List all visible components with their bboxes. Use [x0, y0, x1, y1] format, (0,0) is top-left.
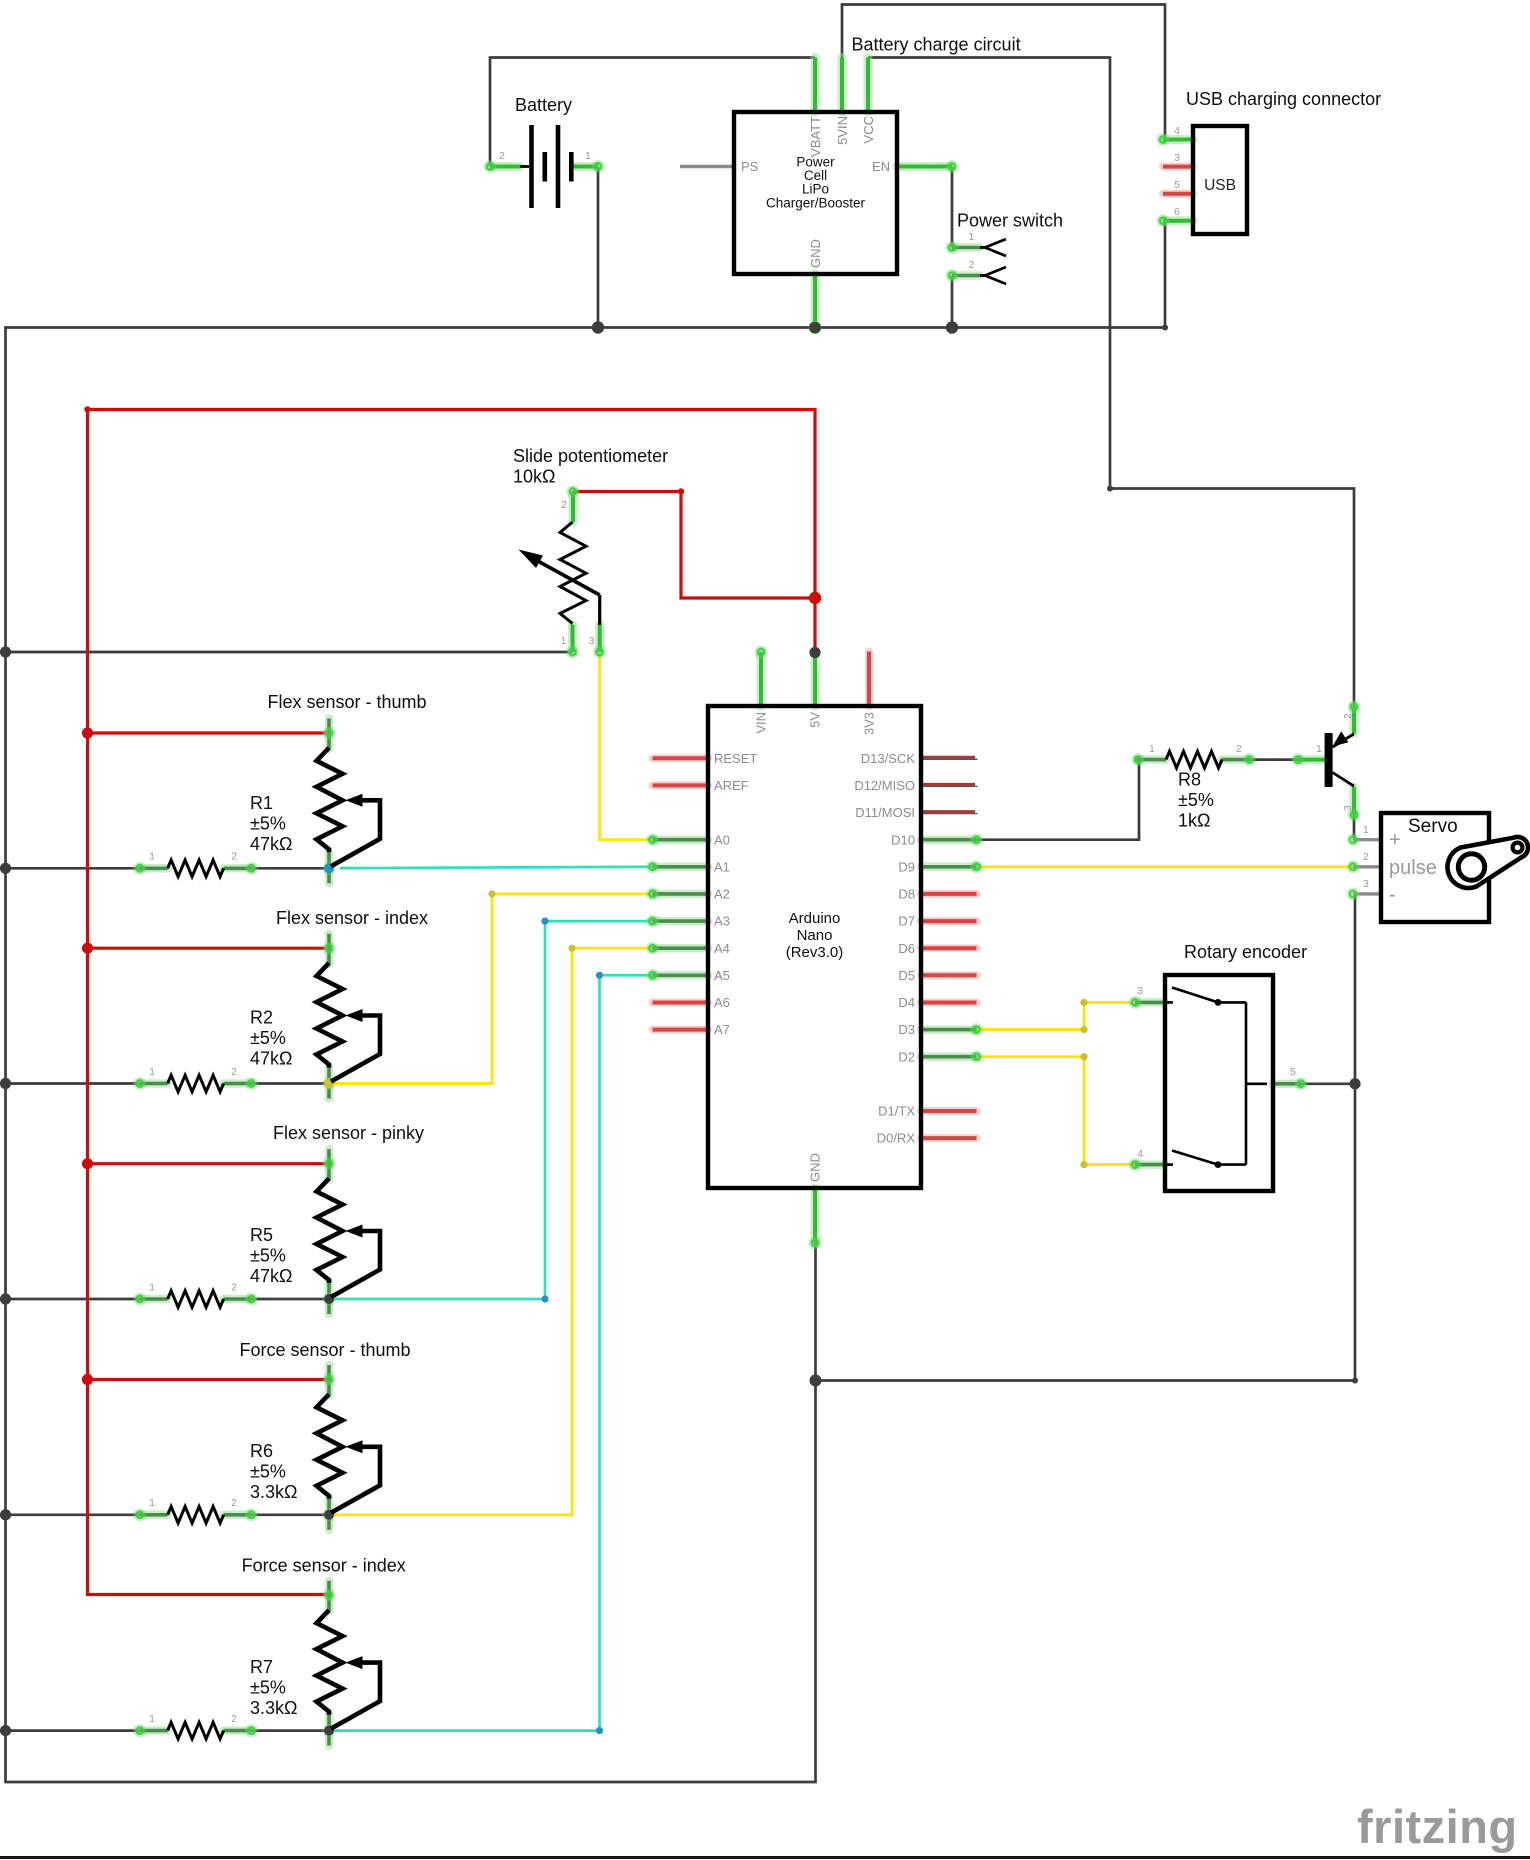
junction: power cell GND rail dot	[809, 322, 820, 333]
wire: D9 to servo pulse (yellow)	[977, 865, 1354, 868]
svg-text:3: 3	[1363, 878, 1369, 890]
svg-text:2: 2	[561, 499, 567, 511]
junction: red bus corner	[84, 406, 90, 412]
power cell pin leads VBATT 5VIN VCC GND EN PS	[811, 58, 820, 113]
rotary encoder SW1 box	[1165, 975, 1273, 1191]
wire: A4 to force thumb node (yellow)	[329, 948, 653, 1515]
svg-text:D1/TX: D1/TX	[878, 1104, 915, 1119]
red stubs: D8-D4, D1/TX, D0/RX	[921, 890, 977, 898]
svg-text:±5%: ±5%	[1178, 790, 1214, 810]
junction: yellow bend dots	[488, 890, 495, 897]
svg-text:-: -	[1389, 884, 1396, 906]
svg-text:1kΩ: 1kΩ	[1178, 810, 1210, 830]
battery pin leads	[490, 162, 520, 171]
svg-text:1: 1	[149, 1497, 155, 1509]
svg-text:1: 1	[1316, 743, 1322, 755]
svg-text:1: 1	[1149, 743, 1155, 755]
svg-text:D13/SCK: D13/SCK	[861, 751, 916, 766]
svg-text:47kΩ: 47kΩ	[250, 1049, 292, 1069]
horizontal resistors R1,R2,R5,R6,R7 symbols	[168, 860, 224, 877]
wire: R7 pin 2 to flex/force sensor node	[251, 1729, 329, 1732]
svg-text:Flex sensor - thumb: Flex sensor - thumb	[267, 692, 426, 712]
wire: servo - pin down to GND junction	[816, 894, 1356, 1381]
svg-text:1: 1	[585, 150, 591, 162]
svg-text:±5%: ±5%	[250, 814, 286, 834]
wire: D2 to rotary pin 4 (yellow)	[977, 1057, 1136, 1165]
svg-text:D12/MISO: D12/MISO	[854, 778, 915, 793]
svg-text:47kΩ: 47kΩ	[250, 1266, 292, 1286]
svg-text:GND: GND	[808, 239, 823, 268]
battery BAT1 symbol	[529, 125, 534, 208]
svg-text:1: 1	[149, 1066, 155, 1078]
svg-text:Force sensor - thumb: Force sensor - thumb	[239, 1340, 410, 1360]
maroon wired pins D13/D12/D11	[921, 758, 978, 760]
svg-text:fritzing: fritzing	[1357, 1800, 1518, 1853]
svg-text:VIN: VIN	[754, 712, 769, 734]
svg-text:R8: R8	[1178, 769, 1201, 789]
svg-text:pulse: pulse	[1389, 857, 1437, 879]
svg-text:D3: D3	[898, 1022, 915, 1037]
flex/force sensor pin leads	[325, 719, 334, 750]
svg-text:2: 2	[231, 1281, 237, 1293]
junction: GND bottom junction	[810, 1375, 822, 1387]
svg-text:3: 3	[589, 635, 595, 647]
green connection glow dots	[646, 833, 659, 846]
svg-text:AREF: AREF	[714, 778, 749, 793]
red stub: 3V3	[865, 652, 873, 707]
svg-text:R2: R2	[250, 1008, 273, 1028]
svg-text:Rotary encoder: Rotary encoder	[1184, 942, 1307, 962]
wire: D10 to R8 pin 1	[977, 760, 1140, 840]
wire: D3 to rotary pin 3 (yellow)	[977, 1002, 1136, 1029]
svg-text:R5: R5	[250, 1225, 273, 1245]
slide pot pin leads	[569, 492, 578, 523]
svg-text:R6: R6	[250, 1441, 273, 1461]
svg-text:2: 2	[1236, 743, 1242, 755]
svg-text:USB charging connector: USB charging connector	[1186, 89, 1381, 109]
svg-text:GND: GND	[808, 1153, 823, 1182]
svg-text:D9: D9	[898, 859, 915, 874]
bottom border line	[0, 1856, 1530, 1859]
svg-text:Force sensor - index: Force sensor - index	[242, 1556, 406, 1576]
svg-text:±5%: ±5%	[250, 1678, 286, 1698]
flex/force sensor variable-resistor symbols	[317, 748, 343, 853]
svg-text:3: 3	[1342, 805, 1354, 811]
wire: R8 pin 2 to transistor base	[1249, 758, 1298, 761]
wire: slide pot pin 2 to 5V junction	[573, 492, 815, 599]
svg-text:Arduino: Arduino	[789, 910, 841, 927]
svg-text:A2: A2	[714, 887, 730, 902]
svg-text:5: 5	[1174, 179, 1180, 191]
svg-text:D2: D2	[898, 1049, 915, 1064]
svg-text:A0: A0	[714, 832, 730, 847]
wire: red top run to 5V junction	[88, 410, 816, 599]
svg-text:2: 2	[1363, 851, 1369, 863]
R8 and transistor leads	[1138, 755, 1166, 764]
wire: R6 pin 2 to flex/force sensor node	[251, 1513, 329, 1516]
wire: A5 to force index node (aqua)	[329, 975, 653, 1730]
svg-text:1: 1	[149, 1713, 155, 1725]
svg-text:1: 1	[1363, 824, 1369, 836]
wire: R2 pin 2 to flex/force sensor node	[251, 1082, 329, 1085]
svg-text:Power switch: Power switch	[957, 211, 1063, 231]
svg-text:D10: D10	[891, 832, 915, 847]
svg-text:Charger/Booster: Charger/Booster	[766, 195, 866, 210]
Arduino Nano U1 box	[708, 706, 921, 1188]
wire: A3 to flex pinky node (aqua)	[329, 921, 653, 1299]
rotary encoder pin leads	[1135, 998, 1165, 1007]
svg-text:A4: A4	[714, 941, 730, 956]
wire: slide pot pin 3 to A0 (yellow)	[600, 652, 653, 840]
svg-text:3: 3	[1137, 985, 1143, 997]
horizontal resistor leads R1..R7	[140, 864, 168, 873]
svg-text:2: 2	[499, 150, 505, 162]
svg-text:4: 4	[1174, 125, 1180, 137]
wire: slide pot pin 1 to left GND bus	[6, 651, 573, 654]
wire: transistor pin 3 to servo +	[1353, 815, 1356, 840]
USB connector J1 box	[1193, 126, 1247, 234]
Arduino VIN/5V/GND power leads	[757, 652, 766, 706]
svg-text:USB: USB	[1204, 177, 1236, 194]
servo gray pin leads	[1353, 838, 1381, 841]
svg-text:A5: A5	[714, 968, 730, 983]
svg-text:EN: EN	[872, 159, 890, 174]
svg-text:D11/MOSI: D11/MOSI	[855, 805, 915, 820]
junction: pot corner dot	[678, 488, 684, 494]
svg-text:5V: 5V	[808, 712, 823, 728]
svg-text:Flex sensor - pinky: Flex sensor - pinky	[273, 1123, 424, 1143]
wire: VBATT to battery pin 2	[490, 58, 815, 167]
junction: left bus taps	[0, 646, 11, 657]
svg-text:Flex sensor - index: Flex sensor - index	[276, 908, 428, 928]
svg-text:Servo: Servo	[1408, 816, 1458, 837]
wire: red bus branch to flex pinky top pin	[88, 1162, 330, 1165]
svg-text:R7: R7	[250, 1657, 273, 1677]
power cell U2 box (Power Cell LiPo Charger/Booster)	[734, 112, 897, 274]
junction: red bus taps	[82, 727, 93, 738]
svg-text:Nano: Nano	[797, 927, 833, 944]
servo horn icon	[1447, 837, 1528, 888]
svg-text:D4: D4	[898, 995, 915, 1010]
svg-text:Slide potentiometer: Slide potentiometer	[513, 446, 668, 466]
power switch S1 symbol	[980, 246, 985, 249]
svg-text:±5%: ±5%	[250, 1245, 286, 1265]
svg-text:D7: D7	[898, 914, 915, 929]
svg-text:3V3: 3V3	[862, 712, 877, 735]
wire: left GND bus to R7 pin 1	[6, 1729, 140, 1732]
wire: left GND bus to R2 pin 1	[6, 1082, 140, 1085]
svg-text:3: 3	[1174, 152, 1180, 164]
svg-text:3.3kΩ: 3.3kΩ	[250, 1698, 297, 1718]
svg-text:Battery: Battery	[515, 95, 572, 115]
svg-text:R1: R1	[250, 793, 273, 813]
svg-text:A3: A3	[714, 914, 730, 929]
node D10,D9,D3,D2 leads	[921, 835, 977, 844]
svg-text:±5%: ±5%	[250, 1462, 286, 1482]
junction: GND rail dots	[592, 321, 604, 333]
svg-text:+: +	[1389, 829, 1401, 851]
wire: R5 pin 2 to flex/force sensor node	[251, 1298, 329, 1301]
wire: battery pin 1 to GND rail	[597, 167, 600, 328]
red stubs: RESET AREF A6 A7	[653, 754, 709, 762]
junction: corner dots	[1107, 486, 1113, 492]
junction: rotary pin5 tap	[1349, 1078, 1360, 1089]
svg-text:1: 1	[149, 851, 155, 863]
svg-text:3.3kΩ: 3.3kΩ	[250, 1482, 297, 1502]
svg-text:1: 1	[969, 231, 975, 243]
junction: 5V red junction	[809, 592, 821, 604]
svg-text:Battery charge circuit: Battery charge circuit	[852, 35, 1021, 55]
servo M1 box	[1381, 813, 1489, 922]
junction: aqua bend dots	[541, 918, 548, 925]
svg-text:2: 2	[231, 1066, 237, 1078]
node: flex thumb tap (blue)	[324, 863, 334, 873]
svg-text:2: 2	[969, 259, 975, 271]
svg-text:47kΩ: 47kΩ	[250, 834, 292, 854]
svg-text:2: 2	[231, 1497, 237, 1509]
svg-text:1: 1	[149, 1281, 155, 1293]
svg-text:D6: D6	[898, 941, 915, 956]
node: pinky/force taps (dark)	[324, 1294, 334, 1304]
wire: VCC to transistor emitter (via top-right corridor)	[868, 58, 1354, 707]
svg-text:A6: A6	[714, 995, 730, 1010]
svg-text:A7: A7	[714, 1022, 730, 1037]
wire: 5V junction down to Arduino 5V pin	[813, 598, 816, 650]
wire: red bus branch to flex index top pin	[88, 947, 330, 950]
svg-text:±5%: ±5%	[250, 1028, 286, 1048]
svg-text:VCC: VCC	[861, 116, 876, 143]
svg-text:RESET: RESET	[714, 751, 757, 766]
svg-text:D0/RX: D0/RX	[877, 1131, 916, 1146]
wire: rotary encoder pin 5 to GND riser	[1301, 1082, 1355, 1085]
USB pin leads 4,3,5,6	[1163, 135, 1193, 144]
wire: red bus branch to flex thumb top pin	[88, 731, 330, 734]
node A0-A5 leads (Arduino analog pins)	[653, 835, 709, 844]
wire: EN to power switch pin 1	[951, 167, 954, 248]
wire: A2 to flex index node (yellow)	[329, 894, 653, 1084]
wire: left GND bus to R1 pin 1	[6, 867, 140, 870]
svg-text:2: 2	[231, 851, 237, 863]
svg-text:5: 5	[1290, 1066, 1296, 1078]
transistor Q1 (PNP)	[1325, 733, 1333, 787]
wire: red bus branch to force thumb top pin	[88, 1378, 330, 1381]
svg-text:VBATT: VBATT	[808, 116, 823, 157]
svg-text:(Rev3.0): (Rev3.0)	[786, 944, 844, 961]
rotary encoder internals	[1165, 1001, 1173, 1004]
wire: left GND bus to R6 pin 1	[6, 1513, 140, 1516]
power switch pin leads	[952, 243, 980, 252]
slide potentiometer RV1 symbol	[560, 522, 586, 624]
wire: +V red bus from top rail down to force sensor - index	[88, 410, 330, 1595]
wire: 5VIN to USB pin 4 (top)	[842, 5, 1165, 140]
svg-text:1: 1	[561, 635, 567, 647]
svg-text:PS: PS	[741, 159, 759, 174]
wire: A1 to flex thumb node (aqua)	[340, 867, 653, 868]
wire: power switch pin 2 to GND rail	[951, 276, 954, 328]
svg-text:2: 2	[231, 1713, 237, 1725]
svg-text:10kΩ: 10kΩ	[513, 466, 555, 486]
svg-text:6: 6	[1174, 206, 1180, 218]
wire: left GND bus to R5 pin 1	[6, 1298, 140, 1301]
svg-text:4: 4	[1137, 1148, 1143, 1160]
svg-text:A1: A1	[714, 859, 730, 874]
node: flex index tap (yellow)	[324, 1079, 334, 1089]
junction: 5V wire end dark dot	[809, 647, 820, 658]
svg-text:D8: D8	[898, 887, 915, 902]
wire: R1 pin 2 to flex/force sensor node	[251, 867, 329, 870]
svg-text:D5: D5	[898, 968, 915, 983]
svg-text:5VIN: 5VIN	[835, 116, 850, 145]
resistor R8 symbol	[1166, 751, 1222, 768]
wire: GND main loop (battery/powercell/switch/USB top rail, left bus, bottom rail, Arduino GND riser)	[6, 221, 1166, 1782]
svg-text:2: 2	[1342, 713, 1354, 719]
